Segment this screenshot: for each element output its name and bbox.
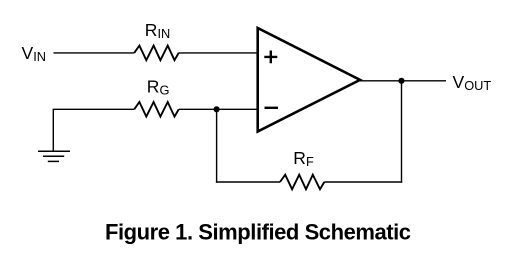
- wire RG to op-amp inverting input: [179, 108, 258, 110]
- op-amp minus pin marker: [265, 107, 279, 109]
- wire node A down to feedback: [216, 109, 218, 182]
- wire RIN to op-amp noninverting input: [179, 52, 258, 54]
- wire ground to RG: [53, 109, 134, 151]
- resistor RIN: [134, 46, 179, 61]
- wire VIN to RIN: [54, 52, 135, 54]
- ground: [38, 151, 70, 161]
- op-amp plus pin marker: [264, 51, 277, 64]
- resistor RG: [134, 102, 179, 117]
- wire output node down to feedback: [401, 81, 403, 183]
- wire feedback bottom left: [216, 181, 280, 183]
- node B junction dot: [398, 78, 404, 84]
- resistor RF: [280, 175, 324, 190]
- op-amp U1: [258, 28, 360, 132]
- node A junction dot: [214, 106, 220, 112]
- wire feedback bottom right: [324, 181, 402, 183]
- svg-text:Figure 1. Simplified Schematic: Figure 1. Simplified Schematic: [105, 220, 411, 245]
- wire op-amp output: [360, 80, 446, 82]
